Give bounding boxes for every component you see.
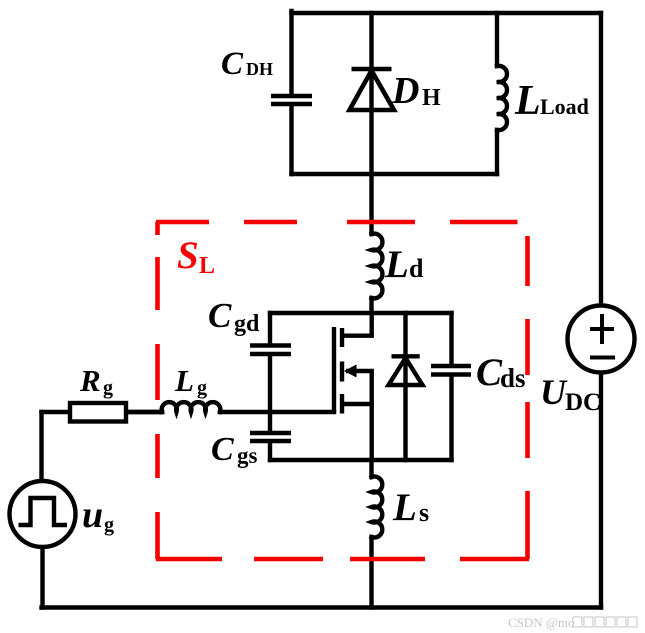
dashed box S_L (156, 222, 529, 559)
svg-text:u: u (82, 494, 103, 536)
inductor L_g (162, 402, 221, 412)
svg-text:gs: gs (237, 443, 258, 468)
label C_DH (221, 46, 273, 82)
label L_s (392, 486, 429, 529)
transistor arrow (344, 365, 357, 378)
watermark CSDN (508, 615, 575, 630)
svg-text:gd: gd (234, 311, 260, 337)
wire U_DC branch lower (599, 372, 603, 608)
wire C_DH branch upper (289, 11, 293, 94)
label D_H (391, 70, 441, 112)
wire top rail (292, 11, 602, 15)
source contact (342, 404, 372, 460)
svg-text:C: C (208, 296, 232, 335)
svg-text:CSDN @mo: CSDN @mo (508, 615, 575, 630)
top edge dashes (156, 220, 209, 225)
wire source line lower (369, 537, 373, 608)
svg-text:U: U (540, 372, 568, 412)
svg-text:L: L (199, 253, 215, 279)
capacitor C_gs (250, 433, 291, 441)
body contact shaft (346, 371, 372, 404)
svg-text:g: g (197, 377, 207, 399)
svg-text:d: d (409, 254, 424, 283)
wire gate to mosfet (220, 410, 334, 414)
svg-text:C: C (221, 46, 244, 82)
label L_Load (514, 78, 589, 124)
capacitor C_DH (271, 96, 312, 104)
wire mid rail (292, 172, 498, 176)
label L_g (174, 363, 207, 399)
source u_g circle (10, 481, 76, 547)
wire ug branch upper (39, 412, 43, 481)
U_DC plus sign (590, 314, 614, 344)
wire Rg to Lg (126, 410, 162, 414)
wire L_Load branch lower (495, 130, 499, 174)
svg-text:DC: DC (565, 389, 601, 416)
wire gate branch vertical (268, 356, 272, 432)
inductor L_s (372, 476, 383, 537)
wire drain line lower (369, 298, 373, 313)
wire body diode branch (403, 313, 407, 460)
wire C_gd upper (268, 313, 272, 344)
label S_L (177, 234, 215, 279)
watermark CJK boxes (573, 617, 637, 627)
wire L_Load branch upper (495, 13, 499, 66)
svg-text:R: R (79, 363, 101, 398)
svg-text:L: L (514, 78, 541, 124)
svg-text:L: L (392, 486, 417, 529)
wire D_H branch (369, 13, 373, 174)
svg-text:g: g (103, 377, 113, 399)
transistor Q1 MOSFET (334, 313, 372, 460)
wire C_ds upper (449, 313, 453, 364)
body diode D_body (389, 356, 423, 385)
svg-text:L: L (174, 363, 194, 398)
diode D_H (350, 69, 395, 110)
wire cell top rail (270, 311, 452, 315)
wire drain line upper (369, 174, 373, 234)
source U_DC circle (568, 306, 635, 373)
right edge dashes (525, 236, 530, 286)
wire C_DH branch lower (289, 106, 293, 174)
capacitor C_gd (250, 346, 291, 355)
wire C_ds lower (449, 377, 453, 460)
left edge dashes (155, 222, 160, 235)
label u_g (82, 494, 114, 536)
svg-text:g: g (104, 514, 114, 536)
wire ug to Rg (42, 410, 71, 414)
svg-text:C: C (211, 431, 234, 468)
svg-text:DH: DH (246, 59, 273, 79)
label C_ds (476, 351, 526, 394)
capacitor C_ds (431, 366, 471, 375)
label L_d (384, 243, 424, 286)
source u_g pulse symbol (19, 498, 68, 525)
wire bottom rail (42, 605, 602, 609)
wire U_DC branch upper (599, 13, 603, 306)
drain contact (342, 313, 372, 336)
inductor L_Load (497, 66, 507, 130)
channel segment source (340, 394, 344, 414)
wire source line upper (369, 460, 373, 477)
svg-text:S: S (177, 234, 199, 277)
channel segment body (340, 362, 344, 382)
wire ug branch lower (40, 547, 44, 608)
U_DC minus sign (590, 356, 615, 360)
channel segment drain (340, 328, 344, 347)
label C_gd (208, 296, 260, 337)
inductor L_d (372, 234, 383, 299)
svg-text:L: L (384, 243, 409, 286)
wire cell bottom rail (270, 458, 452, 462)
resistor R_g (70, 403, 126, 422)
svg-text:C: C (476, 351, 503, 394)
gate bar (332, 327, 336, 412)
svg-text:s: s (419, 498, 429, 527)
svg-text:D: D (391, 70, 419, 112)
svg-text:ds: ds (500, 363, 526, 393)
wire C_gs lower (268, 442, 272, 460)
label U_DC (540, 372, 601, 416)
label C_gs (211, 431, 258, 468)
label R_g (79, 363, 113, 399)
bottom edge dashes (156, 557, 222, 562)
wire gate horizontal (126, 410, 162, 414)
svg-text:Load: Load (540, 94, 589, 119)
svg-text:H: H (422, 85, 441, 111)
